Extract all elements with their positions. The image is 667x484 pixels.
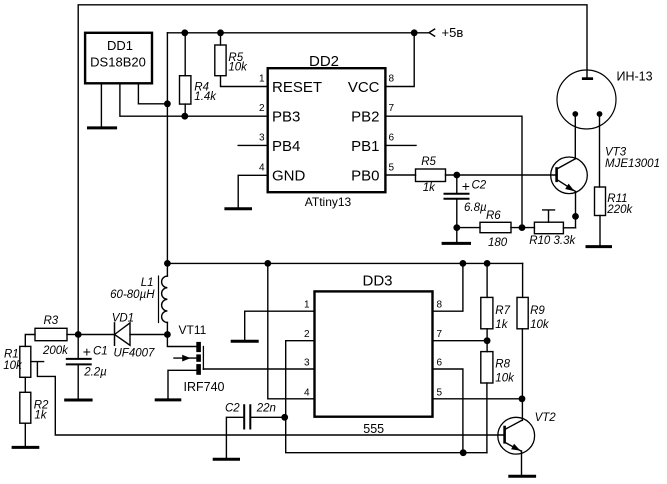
svg-text:R7: R7	[495, 305, 510, 317]
ground C2 22n	[214, 458, 238, 461]
wire VD1 right	[130, 334, 167, 336]
svg-text:4: 4	[304, 387, 310, 398]
wire C2 top lead	[456, 175, 458, 194]
svg-text:DD2: DD2	[309, 53, 339, 70]
node DD1 vdd	[164, 100, 171, 107]
ground DD2	[226, 207, 251, 210]
svg-text:VD1: VD1	[112, 313, 134, 325]
diode VD1 UF4007	[115, 323, 131, 345]
svg-text:VT3: VT3	[605, 147, 627, 159]
capacitor C2 22n	[244, 405, 250, 428]
wire VD1 left	[78, 334, 114, 336]
node +5V R5	[217, 29, 224, 36]
wire R9 bottom lead	[521, 329, 523, 399]
svg-text:8: 8	[389, 74, 395, 85]
svg-text:7: 7	[437, 329, 443, 340]
resistor R11	[595, 187, 606, 216]
svg-text:1.4k: 1.4k	[194, 91, 217, 103]
svg-text:3: 3	[259, 132, 265, 143]
svg-text:1: 1	[304, 300, 310, 311]
resistor R7	[481, 297, 493, 328]
svg-text:R8: R8	[495, 359, 510, 371]
node rail R7	[484, 260, 491, 267]
node C2 R6	[453, 224, 460, 231]
svg-text:RESET: RESET	[272, 79, 322, 96]
node L1 VD1 VT11	[164, 331, 171, 338]
svg-text:6.8µ: 6.8µ	[464, 202, 487, 214]
wire R5 top lead	[220, 33, 222, 45]
svg-text:R5: R5	[421, 156, 436, 168]
inductor L1	[159, 263, 168, 334]
svg-text:180: 180	[488, 237, 508, 249]
svg-text:VT11: VT11	[179, 323, 207, 337]
wire DD3 pin5 to R9 VT2	[433, 398, 523, 400]
wire DD2 pin5 to R5	[385, 174, 415, 176]
svg-text:6: 6	[437, 358, 443, 369]
node pin6 pin2 R8	[460, 449, 467, 456]
svg-text:10k: 10k	[3, 360, 23, 372]
resistor R6	[480, 222, 511, 232]
wire +5V vertical drop x=167	[166, 33, 168, 264]
ground R2	[13, 446, 38, 449]
svg-text:5: 5	[389, 162, 395, 173]
node boost output	[75, 331, 82, 338]
wire R10 wiper tap	[543, 210, 555, 222]
resistor R10 trimmer	[534, 222, 563, 234]
wire DD3 pin3 to VT11 gate	[203, 368, 314, 370]
tube IN-13	[557, 70, 616, 129]
wire DD2 pin3 stub	[238, 144, 268, 146]
svg-text:R9: R9	[530, 305, 545, 317]
svg-text:10k: 10k	[530, 319, 550, 331]
wire R1 to R2	[24, 377, 26, 392]
ground C2	[443, 242, 469, 245]
svg-text:22n: 22n	[256, 402, 276, 414]
wire DD1 left pin to ground	[100, 83, 102, 126]
wire R11 bottom lead	[599, 216, 601, 246]
svg-text:7: 7	[389, 103, 395, 114]
wire DD2 pin6 stub	[385, 144, 416, 146]
node rail pin8	[460, 260, 467, 267]
wire R4 top lead	[184, 33, 186, 76]
svg-text:PB0: PB0	[351, 168, 379, 185]
wire R3 left lead to R1	[25, 335, 35, 347]
wire C1 bottom lead	[77, 364, 79, 398]
svg-text:R1: R1	[4, 348, 19, 360]
svg-text:10k: 10k	[228, 61, 248, 73]
node rail L1	[164, 260, 171, 267]
wire R6 to R10	[511, 227, 534, 229]
wire +5V rail	[167, 32, 429, 34]
svg-text:1k: 1k	[495, 319, 508, 331]
svg-text:6: 6	[389, 132, 395, 143]
svg-text:R6: R6	[486, 210, 501, 222]
svg-text:DD1: DD1	[107, 38, 133, 53]
node R6 R10 PB2	[519, 224, 526, 231]
wire C2 right lead	[250, 416, 284, 418]
svg-text:1k: 1k	[423, 182, 436, 194]
wire R8 top lead	[486, 341, 488, 352]
svg-text:PB4: PB4	[272, 138, 300, 155]
svg-text:3: 3	[304, 358, 310, 369]
wire DD3 pin6 net	[433, 369, 463, 453]
wire C2 left lead to ground	[226, 417, 244, 458]
wire VT11 source to ground	[168, 370, 196, 398]
svg-text:1k: 1k	[34, 409, 47, 421]
resistor R9	[517, 297, 528, 328]
wire bottom +5V rail	[167, 262, 522, 264]
wire DD3 pin8 to +5V rail	[433, 263, 463, 311]
svg-text:10k: 10k	[495, 372, 515, 384]
node C2 pin2	[281, 414, 288, 421]
resistor R1 trimmer	[20, 346, 31, 377]
node +5V VCC	[411, 29, 418, 36]
chip DD2 ATtiny13 box	[268, 68, 386, 192]
resistor R4	[180, 76, 191, 104]
wire DD1 data pin / PB3 net	[120, 83, 268, 116]
wire DD1 vdd pin	[138, 83, 167, 104]
wire R6 left lead	[457, 227, 480, 229]
wire R3 right lead	[67, 334, 78, 336]
wire tube right cathode to R11	[599, 114, 601, 187]
svg-text:220k: 220k	[606, 204, 633, 216]
ground C1	[66, 399, 91, 402]
node pin7 R7 R8	[484, 337, 491, 344]
ground R11	[587, 245, 611, 248]
svg-text:+5в: +5в	[442, 25, 464, 40]
svg-text:ATtiny13: ATtiny13	[305, 195, 352, 209]
wire VT2 emitter to ground	[521, 451, 523, 475]
wire R8 bottom lead	[486, 383, 488, 453]
wire DD2 pin4 GND	[238, 175, 268, 207]
svg-text:555: 555	[363, 422, 384, 436]
svg-text:PB3: PB3	[272, 109, 300, 126]
svg-text:60-80µH: 60-80µH	[110, 289, 155, 301]
wire R7 top lead	[486, 263, 488, 297]
connector +5V chevron	[429, 29, 435, 36]
svg-text:MJE13001: MJE13001	[605, 158, 660, 170]
svg-text:4: 4	[259, 162, 265, 173]
transistor VT11 IRF740 mosfet	[174, 342, 203, 375]
svg-text:VCC: VCC	[348, 79, 380, 96]
node +5V R4	[181, 29, 188, 36]
wire VT3 emitter lead	[575, 192, 577, 228]
resistor R5 10k	[215, 45, 226, 76]
capacitor C2 6.8u plates	[445, 194, 469, 199]
wire DD3 pin2 net	[286, 341, 487, 453]
svg-text:IRF740: IRF740	[184, 380, 225, 394]
wire C1 top lead	[77, 335, 79, 359]
wire top frame / tube anode net	[78, 5, 587, 335]
node pin5 R9 VT2	[519, 395, 526, 402]
svg-text:2: 2	[304, 329, 310, 340]
svg-text:C2: C2	[472, 179, 487, 191]
wire DD2 pin7 PB2 net	[385, 116, 522, 227]
svg-text:2.2µ: 2.2µ	[83, 366, 107, 378]
ground DD3 pin1	[232, 340, 257, 343]
svg-text:GND: GND	[272, 168, 306, 185]
wire C2 bottom lead	[456, 199, 458, 242]
ground VT2	[510, 475, 535, 478]
resistor R5 1k	[416, 169, 446, 182]
wire R5 to VT3 base	[446, 174, 556, 176]
wire VT2 collector lead	[521, 399, 523, 421]
capacitor C1 2.2u plates	[67, 359, 91, 365]
wire VT3 collector to tube	[574, 114, 576, 159]
wire DD3 pin7 to R7 R8	[433, 340, 488, 342]
wire DD3 pin1 to ground	[245, 311, 315, 340]
svg-text:2: 2	[259, 103, 265, 114]
node VT3 emitter R10	[572, 213, 579, 220]
wire R1 wiper tap net to VT2 base	[31, 362, 504, 435]
node rail pin4	[264, 260, 271, 267]
svg-text:L1: L1	[141, 277, 154, 289]
svg-text:R10 3.3k: R10 3.3k	[529, 235, 576, 247]
wire R9 top lead	[522, 263, 524, 297]
svg-text:C2: C2	[225, 402, 240, 414]
svg-text:UF4007: UF4007	[114, 347, 156, 359]
resistor R3	[35, 328, 67, 340]
svg-text:R3: R3	[44, 315, 59, 327]
node PB0 R5 C2	[453, 172, 460, 179]
wire R2 bottom lead	[24, 423, 26, 446]
wire R4 bottom lead	[184, 104, 186, 116]
resistor R2	[20, 392, 31, 423]
svg-text:8: 8	[437, 300, 443, 311]
svg-text:C1: C1	[93, 345, 108, 357]
svg-text:+: +	[462, 178, 470, 194]
wire R5 bottom lead to RESET pin 1	[221, 76, 268, 87]
wire VT11 drain	[167, 335, 196, 347]
svg-text:200k: 200k	[42, 345, 69, 357]
svg-text:1: 1	[259, 74, 265, 85]
svg-text:DD3: DD3	[362, 273, 392, 290]
svg-text:5: 5	[437, 387, 443, 398]
wire DD3 pin4 to +5V rail	[268, 263, 315, 398]
ground DD1	[89, 126, 116, 129]
svg-text:ИН-13: ИН-13	[617, 70, 653, 84]
transistor VT3	[551, 157, 588, 194]
node PB3 R4	[181, 113, 188, 120]
chip DD3 555 box	[315, 291, 433, 416]
svg-text:+: +	[83, 343, 91, 359]
transistor VT2	[498, 417, 535, 454]
wire R10 right lead	[563, 227, 575, 229]
svg-text:PB2: PB2	[351, 109, 379, 126]
chip DD1 DS18B20 box	[85, 33, 152, 84]
svg-text:PB1: PB1	[351, 138, 379, 155]
resistor R8	[481, 352, 493, 383]
svg-text:DS18B20: DS18B20	[90, 55, 146, 70]
svg-text:VT2: VT2	[535, 412, 557, 424]
ground VT11	[156, 398, 180, 401]
wire DD2 pin8 VCC	[385, 33, 414, 87]
wire R7 bottom lead	[486, 329, 488, 341]
